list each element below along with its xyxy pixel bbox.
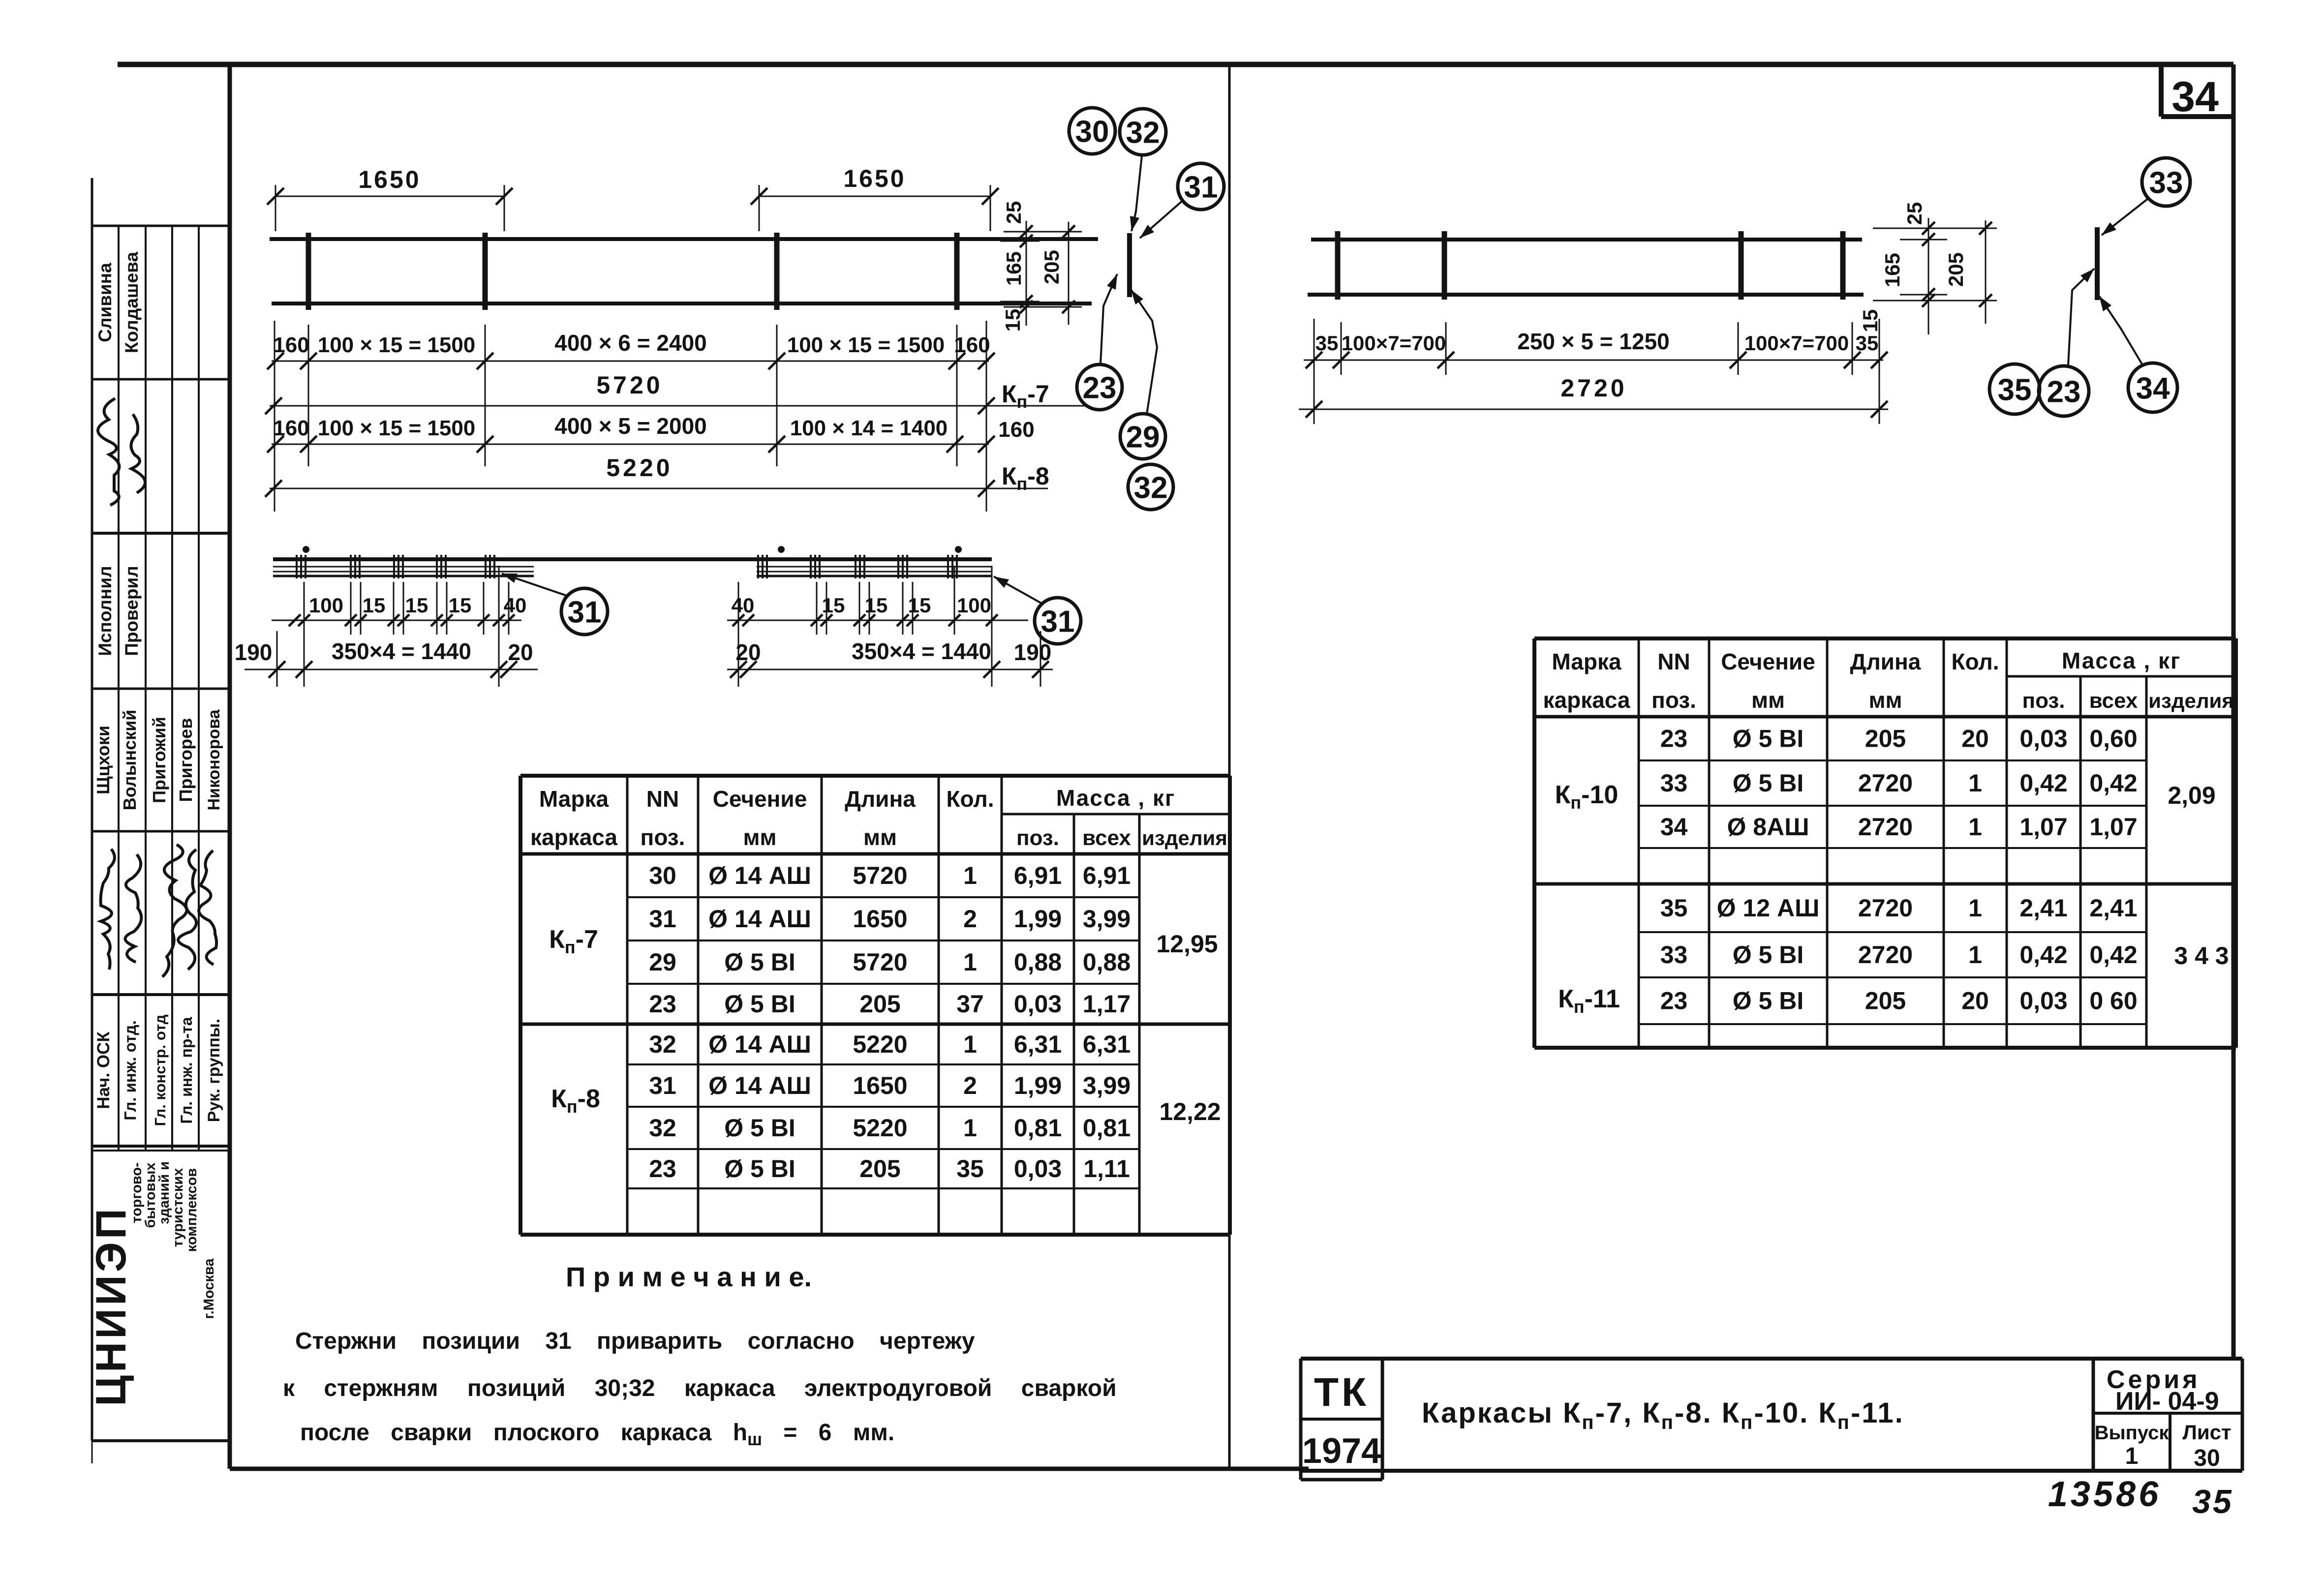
svg-text:поз.: поз. <box>1016 826 1059 850</box>
svg-text:1: 1 <box>963 1031 977 1058</box>
svg-text:29: 29 <box>1126 420 1160 454</box>
svg-text:1,99: 1,99 <box>1014 1072 1062 1099</box>
svg-text:15: 15 <box>865 594 888 617</box>
svg-text:каркаса: каркаса <box>530 824 617 850</box>
svg-text:поз.: поз. <box>641 824 685 850</box>
svg-text:100: 100 <box>957 594 991 617</box>
svg-text:0,42: 0,42 <box>2019 769 2067 797</box>
svg-text:29: 29 <box>649 948 676 976</box>
svg-text:23: 23 <box>2047 375 2081 409</box>
svg-text:0,88: 0,88 <box>1083 948 1131 976</box>
svg-text:1: 1 <box>2125 1443 2139 1469</box>
svg-text:0,42: 0,42 <box>2019 941 2067 969</box>
svg-text:5720: 5720 <box>853 862 907 889</box>
svg-text:0,03: 0,03 <box>1014 990 1062 1018</box>
svg-text:23: 23 <box>1660 987 1688 1015</box>
svg-text:0,03: 0,03 <box>1014 1155 1062 1183</box>
svg-text:Лист: Лист <box>2182 1421 2231 1444</box>
svg-text:2720: 2720 <box>1858 813 1913 841</box>
svg-text:100×7=700: 100×7=700 <box>1744 332 1849 355</box>
svg-text:Волынский: Волынский <box>120 710 140 811</box>
svg-text:Нач. ОСК: Нач. ОСК <box>94 1031 113 1109</box>
svg-text:23: 23 <box>649 990 676 1018</box>
svg-text:Гл. инж. пр-та: Гл. инж. пр-та <box>178 1017 195 1123</box>
svg-text:Кп-11: Кп-11 <box>1558 985 1620 1017</box>
svg-text:Сечение: Сечение <box>713 786 807 812</box>
svg-text:25: 25 <box>1002 201 1025 224</box>
svg-text:350×4 = 1440: 350×4 = 1440 <box>852 638 991 664</box>
svg-text:Стержни позиции 31 привар: Стержни позиции 31 приварить согласно че… <box>295 1328 975 1354</box>
svg-text:Сечение: Сечение <box>1721 649 1815 674</box>
svg-text:Гл. констр. отд: Гл. констр. отд <box>152 1014 169 1126</box>
svg-text:31: 31 <box>568 595 602 629</box>
svg-text:25: 25 <box>1903 202 1926 225</box>
svg-text:Марка: Марка <box>1552 649 1621 674</box>
svg-text:100 × 15 = 1500: 100 × 15 = 1500 <box>318 333 476 357</box>
svg-text:Кп-10: Кп-10 <box>1555 781 1619 813</box>
svg-text:2,41: 2,41 <box>2019 894 2067 922</box>
svg-text:2,41: 2,41 <box>2089 894 2137 922</box>
svg-text:6,31: 6,31 <box>1014 1031 1062 1058</box>
svg-text:Длина: Длина <box>845 786 916 812</box>
svg-text:165: 165 <box>1002 251 1025 286</box>
svg-text:мм: мм <box>1751 687 1785 713</box>
svg-text:23: 23 <box>1083 371 1117 405</box>
svg-text:Ø 5 ВI: Ø 5 ВI <box>1733 941 1804 969</box>
svg-text:Ø 5 ВI: Ø 5 ВI <box>1733 725 1804 753</box>
svg-text:20: 20 <box>735 639 761 665</box>
svg-text:3,99: 3,99 <box>1083 905 1131 933</box>
svg-text:Масса , кг: Масса , кг <box>2062 648 2181 673</box>
svg-text:мм: мм <box>863 824 897 850</box>
svg-text:20: 20 <box>1961 987 1989 1015</box>
svg-text:100 × 14 = 1400: 100 × 14 = 1400 <box>790 416 948 440</box>
svg-text:0,42: 0,42 <box>2089 941 2137 969</box>
svg-text:комплексов: комплексов <box>184 1168 200 1252</box>
svg-text:1: 1 <box>1968 813 1982 841</box>
svg-text:0,03: 0,03 <box>2019 725 2067 753</box>
svg-text:5220: 5220 <box>606 454 673 482</box>
svg-text:37: 37 <box>956 990 984 1018</box>
svg-text:190: 190 <box>235 639 273 665</box>
svg-text:2720: 2720 <box>1560 374 1627 402</box>
svg-text:15: 15 <box>822 594 845 617</box>
svg-text:35: 35 <box>956 1155 984 1183</box>
svg-text:3 4 3: 3 4 3 <box>2174 942 2229 970</box>
svg-text:31: 31 <box>649 1072 676 1099</box>
svg-text:1650: 1650 <box>853 905 907 933</box>
svg-text:1650: 1650 <box>843 165 906 192</box>
svg-text:к стержням позиций 30;32 карка: к стержням позиций 30;32 каркаса электро… <box>283 1375 1117 1401</box>
svg-text:г.Москва: г.Москва <box>201 1258 217 1319</box>
svg-text:0,42: 0,42 <box>2089 769 2137 797</box>
svg-text:35: 35 <box>1315 332 1339 355</box>
svg-text:400 × 5 = 2000: 400 × 5 = 2000 <box>554 413 707 439</box>
svg-text:5220: 5220 <box>853 1114 907 1142</box>
svg-text:NN: NN <box>646 786 679 812</box>
svg-text:ТК: ТК <box>1314 1370 1369 1415</box>
svg-text:1: 1 <box>1968 769 1982 797</box>
svg-text:Марка: Марка <box>539 786 609 812</box>
svg-text:40: 40 <box>504 594 527 617</box>
svg-text:5720: 5720 <box>853 948 907 976</box>
svg-text:2: 2 <box>963 905 977 933</box>
svg-text:205: 205 <box>1865 987 1906 1015</box>
svg-text:0,81: 0,81 <box>1014 1114 1062 1142</box>
svg-text:400 × 6 = 2400: 400 × 6 = 2400 <box>554 330 707 356</box>
svg-text:Ø 14 АШ: Ø 14 АШ <box>708 1031 811 1058</box>
svg-text:2720: 2720 <box>1858 941 1913 969</box>
svg-text:ЦНИИЭП: ЦНИИЭП <box>88 1206 135 1406</box>
svg-text:350×4 = 1440: 350×4 = 1440 <box>332 638 471 664</box>
svg-text:Ø 12 АШ: Ø 12 АШ <box>1717 894 1820 922</box>
svg-text:6,91: 6,91 <box>1083 862 1131 889</box>
svg-text:Колдашева: Колдашева <box>122 252 142 354</box>
svg-text:всех: всех <box>2089 689 2138 713</box>
svg-text:32: 32 <box>1126 116 1160 150</box>
svg-text:1,99: 1,99 <box>1014 905 1062 933</box>
svg-text:23: 23 <box>1660 725 1688 753</box>
svg-text:15: 15 <box>1859 309 1882 333</box>
svg-text:Гл. инж. отд.: Гл. инж. отд. <box>121 1020 139 1121</box>
svg-text:33: 33 <box>1660 769 1688 797</box>
svg-text:100: 100 <box>309 594 343 617</box>
svg-text:1: 1 <box>1968 894 1982 922</box>
svg-text:1650: 1650 <box>358 166 421 193</box>
svg-text:30: 30 <box>649 862 676 889</box>
svg-text:3,99: 3,99 <box>1083 1072 1131 1099</box>
svg-text:6,31: 6,31 <box>1083 1031 1131 1058</box>
svg-text:32: 32 <box>1134 471 1168 505</box>
svg-text:205: 205 <box>1865 725 1906 753</box>
svg-text:35: 35 <box>1998 373 2032 407</box>
svg-text:Выпуск: Выпуск <box>2095 1422 2170 1444</box>
svg-text:Масса , кг: Масса , кг <box>1056 785 1175 811</box>
svg-text:205: 205 <box>859 1155 900 1183</box>
svg-text:Ø 5 ВI: Ø 5 ВI <box>724 990 795 1018</box>
svg-text:1,11: 1,11 <box>1083 1155 1130 1183</box>
svg-text:1650: 1650 <box>853 1072 907 1099</box>
svg-text:40: 40 <box>732 594 755 617</box>
svg-text:31: 31 <box>1041 605 1075 638</box>
svg-text:Ø 5 ВI: Ø 5 ВI <box>724 1114 795 1142</box>
svg-text:1: 1 <box>963 948 977 976</box>
svg-text:100 × 15 = 1500: 100 × 15 = 1500 <box>787 333 945 357</box>
svg-text:1: 1 <box>1968 941 1982 969</box>
svg-text:Пригорев: Пригорев <box>176 718 196 802</box>
svg-text:30: 30 <box>1075 115 1109 149</box>
svg-text:160: 160 <box>273 333 309 357</box>
svg-text:190: 190 <box>1014 639 1052 665</box>
svg-text:34: 34 <box>2171 73 2219 121</box>
svg-text:160: 160 <box>954 333 990 357</box>
svg-text:ИИ- 04-9: ИИ- 04-9 <box>2115 1387 2219 1416</box>
svg-text:после сварки плоского каркаса: после сварки плоского каркаса hш = 6 мм. <box>300 1420 894 1449</box>
svg-text:Пригожий: Пригожий <box>149 717 169 803</box>
svg-text:34: 34 <box>2136 371 2170 405</box>
svg-text:1,17: 1,17 <box>1083 990 1131 1018</box>
svg-text:0,60: 0,60 <box>2089 725 2137 753</box>
svg-text:0,03: 0,03 <box>2019 987 2067 1015</box>
svg-text:Ø 14 АШ: Ø 14 АШ <box>708 905 811 933</box>
svg-text:205: 205 <box>1944 252 1967 287</box>
svg-text:Ø 5 ВI: Ø 5 ВI <box>1733 769 1804 797</box>
svg-text:Ø 14 АШ: Ø 14 АШ <box>708 1072 811 1099</box>
svg-text:Кол.: Кол. <box>1951 649 1999 674</box>
svg-text:всех: всех <box>1082 826 1131 850</box>
svg-text:5720: 5720 <box>596 371 663 399</box>
svg-text:0,81: 0,81 <box>1083 1114 1131 1142</box>
svg-text:13586: 13586 <box>2048 1475 2161 1514</box>
svg-text:поз.: поз. <box>2022 689 2065 713</box>
svg-text:33: 33 <box>1660 941 1688 969</box>
svg-text:15: 15 <box>363 594 386 617</box>
svg-text:2,09: 2,09 <box>2168 782 2215 809</box>
svg-text:12,95: 12,95 <box>1156 930 1218 958</box>
svg-text:15: 15 <box>449 594 472 617</box>
svg-text:2720: 2720 <box>1858 894 1913 922</box>
svg-text:мм: мм <box>1868 687 1902 713</box>
svg-text:1974: 1974 <box>1302 1431 1381 1471</box>
svg-text:поз.: поз. <box>1651 687 1696 713</box>
svg-text:20: 20 <box>508 639 533 665</box>
svg-text:1: 1 <box>963 1114 977 1142</box>
svg-text:15: 15 <box>405 594 428 617</box>
svg-text:100 × 15 = 1500: 100 × 15 = 1500 <box>318 416 476 440</box>
svg-text:5220: 5220 <box>853 1031 907 1058</box>
svg-text:Проверил: Проверил <box>122 566 142 656</box>
svg-text:Исполнил: Исполнил <box>95 566 115 656</box>
svg-text:30: 30 <box>2194 1445 2220 1471</box>
svg-text:Ø 5 ВI: Ø 5 ВI <box>1733 987 1804 1015</box>
svg-text:2720: 2720 <box>1858 769 1913 797</box>
svg-text:Кол.: Кол. <box>946 786 994 812</box>
svg-text:2: 2 <box>963 1072 977 1099</box>
svg-text:Ø 5 ВI: Ø 5 ВI <box>724 948 795 976</box>
svg-text:33: 33 <box>2149 166 2183 200</box>
svg-text:23: 23 <box>649 1155 676 1183</box>
svg-text:165: 165 <box>1881 253 1904 287</box>
svg-text:35: 35 <box>1660 894 1688 922</box>
svg-text:205: 205 <box>859 990 900 1018</box>
svg-text:1,07: 1,07 <box>2089 813 2137 841</box>
svg-text:0,88: 0,88 <box>1014 948 1062 976</box>
svg-text:20: 20 <box>1961 725 1989 753</box>
svg-text:П р и м е ч а н и е.: П р и м е ч а н и е. <box>566 1261 812 1292</box>
svg-text:изделия: изделия <box>1142 826 1227 849</box>
svg-text:Длина: Длина <box>1850 649 1921 674</box>
svg-text:15: 15 <box>1001 309 1024 332</box>
svg-text:Ø 8АШ: Ø 8АШ <box>1727 813 1809 841</box>
svg-text:изделия: изделия <box>2148 689 2234 712</box>
svg-text:15: 15 <box>908 594 931 617</box>
svg-text:Ø 14 АШ: Ø 14 АШ <box>708 862 811 889</box>
svg-text:31: 31 <box>649 905 676 933</box>
svg-text:12,22: 12,22 <box>1159 1098 1221 1125</box>
svg-text:0 60: 0 60 <box>2089 987 2137 1015</box>
svg-text:31: 31 <box>1184 170 1218 204</box>
svg-text:32: 32 <box>649 1114 676 1142</box>
svg-text:250 × 5 = 1250: 250 × 5 = 1250 <box>1517 329 1670 354</box>
svg-text:205: 205 <box>1040 250 1063 284</box>
svg-text:35: 35 <box>2192 1483 2233 1520</box>
svg-text:Сливина: Сливина <box>95 263 115 342</box>
svg-text:мм: мм <box>743 824 776 850</box>
svg-text:NN: NN <box>1657 649 1690 674</box>
svg-text:160: 160 <box>273 416 309 440</box>
svg-text:Никонорова: Никонорова <box>205 709 223 810</box>
svg-text:1: 1 <box>963 862 977 889</box>
svg-text:32: 32 <box>649 1031 676 1058</box>
svg-text:Ø 5 ВI: Ø 5 ВI <box>724 1155 795 1183</box>
svg-text:1,07: 1,07 <box>2019 813 2067 841</box>
svg-text:Рук. группы.: Рук. группы. <box>205 1019 223 1122</box>
svg-text:Щцхоки: Щцхоки <box>93 726 113 794</box>
svg-text:160: 160 <box>998 418 1034 442</box>
svg-text:100×7=700: 100×7=700 <box>1342 332 1446 355</box>
svg-text:каркаса: каркаса <box>1543 687 1630 713</box>
svg-text:35: 35 <box>1856 332 1879 355</box>
svg-text:6,91: 6,91 <box>1014 862 1062 889</box>
svg-text:34: 34 <box>1660 813 1688 841</box>
